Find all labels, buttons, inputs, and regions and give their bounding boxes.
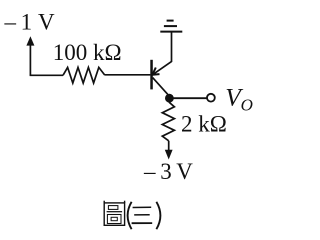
resistor R2 2 kOhm <box>162 102 174 141</box>
node junction dot <box>165 94 174 103</box>
transistor Q1 collector lead <box>153 78 170 97</box>
caption: character SAN (three) <box>132 207 153 223</box>
transistor Q1 base bar <box>150 60 153 90</box>
svg-text:1: 1 <box>21 9 32 34</box>
arrow to -3 V <box>165 150 173 160</box>
wire down <box>168 141 170 151</box>
svg-text:100 kΩ: 100 kΩ <box>53 40 122 65</box>
svg-text:O: O <box>241 96 253 115</box>
output terminal circle <box>207 94 215 102</box>
wire to output <box>169 97 207 99</box>
wire <box>30 74 63 76</box>
svg-text:3: 3 <box>160 159 172 184</box>
wire base <box>105 74 151 76</box>
caption: left parenthesis <box>128 202 132 229</box>
svg-text:–: – <box>4 9 17 34</box>
svg-text:–: – <box>143 159 156 184</box>
wire emitter up <box>171 33 173 63</box>
transistor Q1 emitter lead <box>152 61 171 74</box>
caption: right parenthesis <box>156 202 160 229</box>
svg-text:2 kΩ: 2 kΩ <box>181 112 227 137</box>
ground <box>160 31 182 33</box>
svg-text:V: V <box>176 159 193 184</box>
transistor Q1 emitter arrowhead (PNP) <box>152 68 155 75</box>
arrow to -1 V <box>29 44 31 76</box>
svg-text:V: V <box>38 9 55 34</box>
caption: character TU (figure) drawn <box>104 201 124 226</box>
resistor R1 100 kOhm <box>63 67 105 83</box>
